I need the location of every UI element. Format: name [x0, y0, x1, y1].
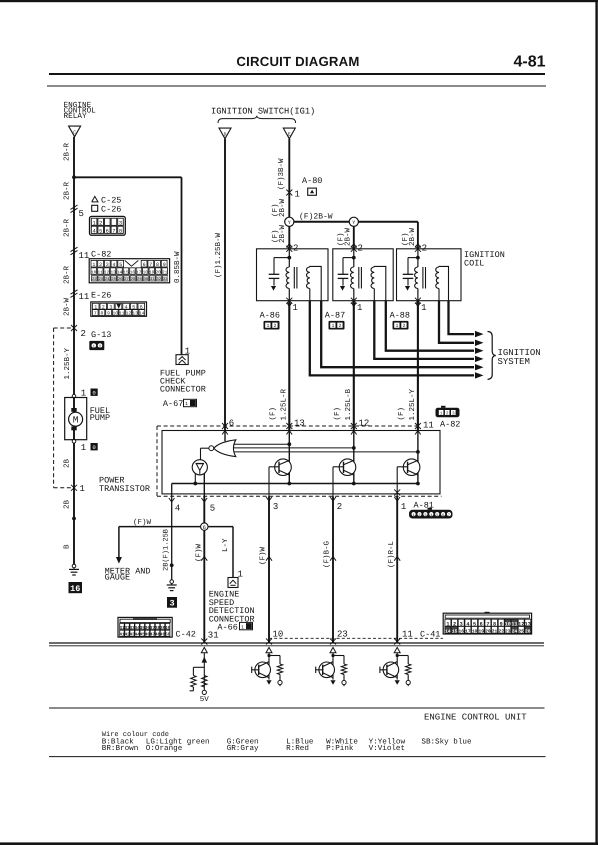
svg-text:10: 10	[91, 271, 97, 276]
svg-text:(F)W: (F)W	[259, 546, 268, 565]
engine control unit lower boundary	[49, 707, 545, 709]
svg-text:(F)1.25B-W: (F)1.25B-W	[214, 232, 223, 278]
high tension wire coil3 secondary b	[449, 301, 475, 334]
svg-text:12: 12	[104, 271, 110, 276]
svg-text:2: 2	[293, 244, 298, 254]
connector block C-41	[443, 613, 531, 634]
primary winding coil U1 A-86	[286, 267, 289, 289]
svg-text:17: 17	[136, 271, 142, 276]
connector icon A-87	[329, 321, 345, 330]
connector icon A-82	[436, 408, 460, 417]
ground reference box 3	[167, 597, 177, 608]
svg-text:(F)2B-W: (F)2B-W	[299, 212, 333, 221]
svg-text:16: 16	[458, 629, 464, 635]
wire 2B-R main feed from relay	[73, 137, 75, 565]
svg-text:18: 18	[472, 629, 478, 635]
svg-text:1: 1	[92, 262, 95, 268]
svg-text:9: 9	[107, 311, 110, 317]
svg-text:25: 25	[518, 629, 524, 635]
dashed link to C-41	[269, 637, 443, 639]
svg-text:IGNITION SWITCH(IG1): IGNITION SWITCH(IG1)	[211, 107, 315, 117]
svg-text:8: 8	[119, 228, 122, 234]
svg-text:13: 13	[132, 311, 138, 317]
svg-text:1: 1	[295, 190, 300, 200]
svg-text:E-26: E-26	[91, 290, 111, 300]
svg-text:GAUGE: GAUGE	[105, 573, 131, 583]
pin 13 entry	[286, 423, 292, 429]
svg-text:28: 28	[131, 277, 136, 282]
coil U2 A-87 pin 1 exit	[351, 298, 357, 304]
high tension wire coil1 secondary b	[321, 301, 474, 368]
svg-text:0: 0	[92, 445, 95, 451]
svg-text:6: 6	[229, 419, 234, 429]
svg-text:8: 8	[156, 262, 159, 268]
wire crossing mark pin 11 C-82	[71, 247, 78, 251]
core coil U1 A-86	[293, 267, 295, 289]
svg-text:1.25B-Y: 1.25B-Y	[63, 347, 72, 379]
svg-text:5: 5	[79, 209, 84, 219]
svg-text:11: 11	[119, 311, 125, 317]
svg-text:26: 26	[118, 277, 123, 282]
splice node 6 on (F)W wire	[201, 523, 208, 530]
svg-text:1.25L-R: 1.25L-R	[280, 388, 289, 420]
svg-text:A-88: A-88	[390, 311, 410, 321]
fuel pump assembly dashed boundary	[54, 327, 74, 329]
svg-text:11: 11	[79, 292, 90, 302]
svg-text:4: 4	[112, 262, 115, 268]
ECU pin 10 crossing	[266, 639, 272, 645]
ECU driver circuit pin x=269.0	[266, 647, 272, 652]
svg-text:2B-W: 2B-W	[408, 227, 417, 246]
svg-text:1: 1	[266, 323, 269, 329]
svg-text:22: 22	[92, 277, 97, 282]
svg-text:19: 19	[149, 271, 155, 276]
svg-text:4: 4	[92, 228, 95, 234]
high tension wire coil2 secondary a	[374, 301, 474, 359]
power transistor element col 289.3	[288, 431, 290, 484]
svg-text:5: 5	[436, 513, 438, 518]
svg-text:15: 15	[452, 629, 458, 635]
svg-text:RELAY: RELAY	[64, 112, 87, 121]
fuel pump terminal icon bottom	[91, 443, 98, 450]
splice node coil 2 feed	[349, 217, 358, 226]
svg-text:2: 2	[402, 323, 405, 329]
engine control unit boundary	[49, 642, 544, 644]
wire pin 1 to ECU pin 11	[396, 467, 398, 497]
connector icon A-67	[184, 399, 197, 406]
boundary exit pin 4	[169, 498, 172, 502]
power transistor inner frame	[162, 431, 440, 494]
svg-text:6: 6	[106, 228, 109, 234]
svg-text:2: 2	[446, 411, 449, 416]
svg-text:7: 7	[149, 262, 152, 268]
connector icon A-66	[240, 622, 253, 629]
wire feed coil 3	[417, 222, 419, 249]
boundary exit pin 1	[394, 489, 400, 495]
svg-text:R:Red: R:Red	[286, 744, 309, 753]
svg-text:5: 5	[119, 262, 122, 268]
svg-text:30: 30	[143, 277, 148, 282]
svg-text:SYSTEM: SYSTEM	[498, 357, 530, 367]
svg-text:15: 15	[123, 271, 129, 276]
svg-text:(F)B-G: (F)B-G	[323, 540, 332, 568]
condenser in coil U3 A-88	[403, 273, 414, 275]
wire pin 2 to ECU pin 23	[332, 467, 334, 497]
wire (F)2B-W distribution to ignition coils	[294, 221, 418, 223]
splice node on ignition feed	[285, 217, 294, 226]
svg-text:2: 2	[99, 220, 102, 226]
svg-text:1: 1	[293, 303, 298, 313]
svg-text:5: 5	[210, 504, 215, 514]
svg-text:19: 19	[478, 629, 484, 635]
svg-text:14: 14	[445, 629, 451, 635]
svg-text:4: 4	[175, 504, 180, 514]
power transistor element col 353.8	[353, 431, 355, 484]
svg-text:2B: 2B	[63, 458, 72, 468]
svg-text:2: 2	[338, 323, 341, 329]
wire L-Y to engine speed detection connector	[208, 526, 233, 528]
boundary exit pin 5	[202, 498, 205, 502]
svg-text:7: 7	[94, 311, 97, 317]
driver element Q0	[192, 460, 207, 475]
wire coil1 pin1 to power transistor pin 13	[288, 301, 290, 431]
svg-text:0.85B-W: 0.85B-W	[173, 251, 182, 283]
svg-text:4-81: 4-81	[514, 54, 546, 71]
svg-text:2B(F)1.25B: 2B(F)1.25B	[162, 529, 171, 571]
svg-text:1: 1	[241, 624, 244, 630]
svg-text:31: 31	[150, 277, 155, 282]
wire feed coil 1	[288, 226, 290, 248]
svg-text:CIRCUIT DIAGRAM: CIRCUIT DIAGRAM	[236, 54, 359, 69]
ECU driver circuit pin x=397.2	[394, 647, 400, 652]
svg-text:25: 25	[111, 277, 116, 282]
svg-text:P:Pink: P:Pink	[326, 744, 354, 753]
svg-text:7: 7	[448, 513, 450, 518]
svg-text:21: 21	[492, 629, 498, 635]
svg-text:(F): (F)	[397, 407, 406, 421]
connector icon A-80	[308, 188, 317, 195]
svg-text:1: 1	[331, 323, 334, 329]
svg-text:33: 33	[163, 277, 168, 282]
wire feed coil 2	[353, 226, 355, 248]
svg-text:1: 1	[92, 220, 95, 226]
svg-text:6: 6	[143, 262, 146, 268]
svg-text:26: 26	[525, 629, 531, 635]
svg-text:1: 1	[395, 323, 398, 329]
wire branch to fuel pump check connector	[74, 176, 182, 178]
primary winding coil U2 A-87	[351, 267, 354, 289]
svg-text:2B-W: 2B-W	[278, 224, 287, 243]
svg-text:CONNECTOR: CONNECTOR	[160, 384, 206, 394]
svg-text:13: 13	[294, 419, 305, 429]
svg-text:2B-R: 2B-R	[63, 218, 72, 237]
svg-text:(F)R-L: (F)R-L	[387, 540, 396, 568]
svg-text:12: 12	[359, 419, 370, 429]
ECU driver circuit pin x=333.0	[330, 647, 336, 652]
svg-text:18: 18	[143, 271, 149, 276]
svg-text:10: 10	[112, 311, 118, 317]
ECU pin 23 crossing	[330, 639, 336, 645]
wire pin 4 to ground	[171, 496, 173, 580]
svg-text:1: 1	[81, 388, 86, 398]
svg-text:14: 14	[117, 271, 123, 276]
ignition coil U3 A-88	[397, 249, 462, 301]
high tension wire coil1 secondary a	[310, 301, 474, 376]
emitter bus	[172, 483, 419, 485]
svg-text:7: 7	[112, 228, 115, 234]
primary winding coil U3 A-88	[415, 267, 418, 289]
engine control relay connector	[69, 126, 81, 137]
svg-text:(F)W: (F)W	[133, 518, 152, 527]
svg-text:G-13: G-13	[91, 330, 111, 340]
svg-text:20: 20	[156, 271, 162, 276]
svg-text:2: 2	[422, 244, 427, 254]
svg-text:3: 3	[169, 599, 174, 609]
svg-text:24: 24	[512, 629, 518, 635]
boundary crossing pin 2 G-13	[71, 325, 77, 331]
svg-text:2B-R: 2B-R	[63, 142, 72, 161]
fuel pump	[72, 394, 76, 398]
secondary winding coil U3 A-88	[436, 267, 439, 289]
svg-text:1.25L-B: 1.25L-B	[344, 388, 353, 420]
svg-text:6: 6	[203, 525, 206, 531]
svg-text:0: 0	[92, 390, 95, 396]
gate input line 1	[234, 443, 290, 445]
svg-text:11: 11	[79, 251, 90, 261]
svg-text:4: 4	[430, 513, 432, 518]
ECU pin 11 crossing	[394, 639, 400, 645]
svg-text:31: 31	[208, 630, 219, 640]
core coil U2 A-87	[358, 267, 360, 289]
svg-text:1: 1	[413, 513, 415, 518]
connector icon A-88	[393, 321, 409, 330]
svg-text:2: 2	[337, 502, 342, 512]
svg-text:13: 13	[110, 271, 116, 276]
svg-text:1: 1	[401, 502, 406, 512]
svg-text:2: 2	[358, 244, 363, 254]
svg-text:C-26: C-26	[101, 205, 121, 215]
svg-text:L-Y: L-Y	[222, 538, 230, 552]
svg-text:3: 3	[452, 411, 455, 416]
pin 6 entry	[222, 423, 228, 429]
svg-text:A-86: A-86	[260, 311, 280, 321]
svg-text:5V: 5V	[200, 696, 210, 704]
high tension wire coil3 secondary a	[439, 301, 474, 343]
ECU pin 31 crossing	[201, 639, 207, 645]
chassis ground power transistor	[170, 580, 174, 584]
svg-text:20: 20	[485, 629, 491, 635]
svg-text:2: 2	[99, 262, 102, 268]
svg-text:D: D	[224, 132, 227, 138]
svg-text:2B-W: 2B-W	[63, 297, 72, 316]
svg-text:2: 2	[81, 329, 86, 339]
ignition switch connector IG1-b	[283, 128, 295, 139]
svg-text:V:Violet: V:Violet	[369, 744, 405, 753]
engine speed detection connector terminal	[228, 578, 238, 588]
nor gate U4	[224, 431, 226, 442]
svg-text:1: 1	[185, 401, 188, 407]
gate input line 2	[234, 447, 354, 449]
coil U1 A-86 pin 1 exit	[286, 298, 292, 304]
svg-text:E: E	[288, 132, 291, 138]
svg-text:A-66: A-66	[217, 623, 237, 633]
svg-text:11: 11	[98, 271, 104, 276]
svg-text:1: 1	[81, 443, 86, 453]
svg-text:(F): (F)	[333, 407, 342, 421]
svg-text:BR:Brown: BR:Brown	[102, 745, 138, 753]
svg-text:C-42: C-42	[176, 630, 196, 640]
svg-text:9: 9	[163, 262, 166, 268]
boundary exit pin 2	[330, 497, 333, 501]
ECU input pin 31 circuit	[201, 647, 207, 652]
svg-text:3: 3	[119, 220, 122, 226]
svg-text:1: 1	[421, 303, 426, 313]
power transistor element col 417.9	[417, 431, 419, 484]
node splice on ground wire	[72, 517, 76, 521]
svg-text:1: 1	[357, 303, 362, 313]
condenser in coil U2 A-87	[338, 273, 349, 275]
ignition coil U1 A-86	[257, 249, 329, 301]
svg-text:2B-R: 2B-R	[63, 181, 72, 200]
svg-text:22: 22	[498, 629, 504, 635]
svg-text:A-87: A-87	[325, 311, 345, 321]
svg-text:2B-W: 2B-W	[344, 227, 353, 246]
ground reference box 16	[69, 582, 83, 593]
svg-text:SB:Sky blue: SB:Sky blue	[421, 738, 472, 747]
svg-text:1.25L-Y: 1.25L-Y	[408, 388, 417, 420]
svg-text:(F)3B-W: (F)3B-W	[277, 158, 286, 190]
connector icon A-81	[409, 510, 453, 519]
svg-text:COIL: COIL	[464, 258, 484, 268]
svg-text:14: 14	[139, 311, 145, 317]
svg-text:32: 32	[156, 277, 161, 282]
wire coil3 pin1 to power transistor pin 11	[417, 301, 419, 431]
svg-text:3: 3	[273, 502, 278, 512]
wire crossing mark pin 11 E-26	[71, 290, 78, 294]
svg-text:A-67: A-67	[163, 399, 183, 409]
secondary winding coil U1 A-86	[306, 267, 309, 289]
svg-text:29: 29	[137, 277, 142, 282]
wire (F)1.25B-W to power transistor pin 6	[224, 139, 226, 431]
fuel pump terminal icon top	[91, 389, 98, 396]
svg-text:O:Orange: O:Orange	[146, 744, 183, 753]
svg-text:17: 17	[465, 629, 471, 635]
svg-text:2B-R: 2B-R	[63, 265, 72, 284]
wire crossing mark pin 5	[71, 205, 78, 209]
svg-text:C: C	[73, 130, 76, 136]
condenser in coil U1 A-86	[269, 273, 280, 275]
wire (F)W meter branch	[119, 526, 201, 528]
wire coil2 pin1 to power transistor pin 12	[353, 301, 355, 431]
driver legs	[194, 474, 196, 484]
ignition coil U2 A-87	[333, 249, 393, 301]
svg-text:A-80: A-80	[302, 176, 322, 186]
svg-text:TRANSISTOR: TRANSISTOR	[99, 484, 150, 494]
svg-text:12: 12	[126, 311, 132, 317]
svg-text:16: 16	[70, 584, 80, 594]
svg-text:(F): (F)	[269, 407, 278, 421]
svg-text:GR:Gray: GR:Gray	[227, 744, 259, 753]
high tension wire coil2 secondary b	[386, 301, 474, 351]
core coil U3 A-88	[422, 267, 424, 289]
connector block C-25/C-26	[90, 216, 126, 235]
svg-text:2: 2	[418, 513, 420, 518]
connector block E-26	[91, 302, 147, 316]
svg-text:ENGINE CONTROL UNIT: ENGINE CONTROL UNIT	[424, 713, 527, 723]
power transistor unit dashed boundary	[157, 425, 420, 427]
svg-text:27: 27	[124, 277, 129, 282]
svg-text:21: 21	[162, 271, 168, 276]
svg-text:11: 11	[423, 421, 434, 431]
gate output wire	[201, 447, 209, 449]
boundary crossing pin 1 fuel pump	[71, 485, 77, 491]
secondary winding coil U2 A-87	[371, 267, 374, 289]
meter and gauge arrow	[118, 527, 120, 557]
svg-text:PUMP: PUMP	[90, 413, 110, 423]
svg-text:A-82: A-82	[440, 420, 460, 430]
svg-text:1: 1	[440, 411, 443, 416]
svg-text:2B: 2B	[63, 499, 72, 509]
wire pin 5 to ECU pin 31	[203, 496, 205, 523]
svg-text:3: 3	[424, 513, 426, 518]
svg-text:2B-W: 2B-W	[278, 198, 287, 217]
boundary exit pin 3	[266, 497, 269, 501]
connector C-25 / C-26 label	[92, 196, 98, 202]
connector crossing pin 1 A-80	[286, 190, 292, 196]
ignition system brace	[488, 332, 496, 380]
gate input line 3	[234, 451, 418, 453]
connector block C-42	[118, 617, 172, 637]
svg-text:23: 23	[98, 277, 103, 282]
ignition switch overbrace	[218, 116, 296, 123]
wire (F)3B-W from ignition switch	[288, 139, 290, 218]
svg-text:24: 24	[105, 277, 110, 282]
svg-text:23: 23	[505, 629, 511, 635]
svg-text:M: M	[73, 415, 79, 426]
pin 12 entry	[351, 423, 357, 429]
connector icon A-86	[264, 321, 280, 330]
svg-text:5: 5	[99, 228, 102, 234]
svg-text:1: 1	[80, 484, 85, 494]
connector block C-82	[89, 259, 169, 283]
svg-text:3: 3	[106, 262, 109, 268]
svg-text:8: 8	[101, 311, 104, 317]
ignition switch connector IG1-a	[219, 128, 231, 139]
svg-text:2: 2	[273, 323, 276, 329]
svg-text:16: 16	[130, 271, 136, 276]
node junction to fuel pump check connector branch	[72, 175, 76, 179]
svg-text:B: B	[64, 544, 72, 549]
svg-text:6: 6	[442, 513, 444, 518]
svg-text:50: 50	[165, 633, 171, 638]
wire pin 3 to ECU pin 10	[268, 467, 270, 497]
chassis ground left	[72, 564, 76, 568]
coil U3 A-88 pin 1 exit	[415, 298, 421, 304]
connector icon G-13	[89, 341, 104, 350]
pin 11 entry	[415, 423, 421, 429]
